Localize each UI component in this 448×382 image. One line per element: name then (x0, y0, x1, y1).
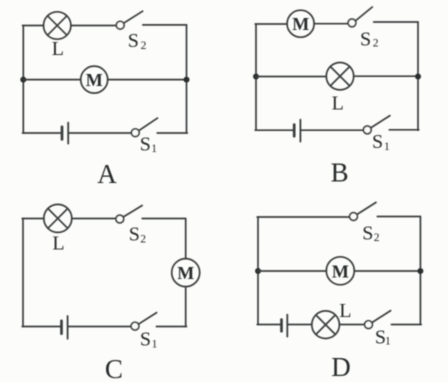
label S2 (circuit C) (129, 224, 147, 246)
wire D bottom segment (lamp to switch S1) (340, 324, 365, 326)
label S1 (circuit D) (375, 327, 391, 349)
wire B top segment (switch to right corner) (374, 21, 418, 23)
wire A middle segment (left to motor) (23, 79, 81, 81)
node dot left (circuit A) (20, 77, 26, 83)
wire A top segment (lamp to switch S2) (71, 25, 116, 27)
wire A bottom segment (battery to switch S1) (69, 132, 132, 134)
svg-text:L: L (332, 93, 344, 115)
svg-text:S: S (140, 329, 151, 351)
label S1 (circuit B) (372, 131, 390, 153)
wire D top segment (corner to switch S2) (257, 216, 349, 218)
svg-text:S: S (128, 30, 139, 52)
wire D right vertical (419, 217, 421, 325)
svg-text:2: 2 (374, 232, 380, 244)
svg-text:S: S (362, 223, 373, 245)
battery (circuit B) (294, 120, 300, 142)
switch S2 (circuit D) (350, 202, 376, 220)
wire B left vertical (255, 24, 257, 130)
svg-text:M: M (177, 263, 194, 283)
wire C bottom segment (switch to right corner) (156, 326, 186, 328)
svg-text:2: 2 (140, 233, 146, 245)
svg-text:L: L (339, 300, 351, 322)
label S2 (circuit A) (128, 30, 147, 52)
motor M (circuit C) (172, 259, 200, 287)
label S1 (circuit A) (140, 134, 157, 156)
wire C top segment (lamp to switch S2) (72, 218, 116, 220)
wire C top segment (switch to right corner) (142, 218, 186, 220)
wire A right vertical (186, 25, 188, 133)
wire D bottom segment (left corner to battery) (257, 324, 280, 326)
wire B bottom segment (battery to switch S1) (301, 129, 363, 131)
svg-text:1: 1 (384, 141, 390, 153)
svg-text:1: 1 (385, 336, 391, 348)
svg-text:B: B (331, 158, 349, 188)
wire A bottom segment (switch to right corner) (157, 132, 187, 134)
svg-text:M: M (86, 70, 103, 90)
wire B middle segment (lamp to right) (354, 75, 418, 77)
motor M (circuit A) (81, 66, 108, 93)
svg-text:S: S (360, 29, 371, 51)
label S2 (circuit D) (362, 223, 380, 245)
lamp L (circuit D) (312, 311, 340, 339)
svg-text:1: 1 (152, 339, 158, 351)
wire C right vertical (top, to motor) (185, 219, 187, 259)
wire D bottom segment (battery to lamp) (288, 324, 312, 326)
wire A top segment (corner to lamp) (23, 25, 44, 27)
wire D left vertical (257, 217, 259, 325)
node dot right (circuit B) (415, 74, 421, 80)
wire D middle segment (motor to right) (354, 270, 420, 272)
switch S2 (circuit B) (348, 7, 372, 27)
lamp L (circuit B) (326, 62, 353, 89)
switch S1 (circuit C) (131, 313, 157, 330)
svg-text:S: S (140, 134, 151, 156)
svg-text:D: D (331, 352, 351, 382)
wire B middle segment (left to lamp) (256, 76, 326, 78)
wire C top segment (corner to lamp) (22, 218, 44, 220)
svg-text:L: L (52, 38, 64, 60)
motor M (circuit D) (326, 257, 354, 285)
wire A middle segment (motor to right) (108, 79, 187, 81)
wire A bottom segment (left corner to battery) (23, 132, 61, 134)
wire D top segment (switch to right corner) (377, 216, 420, 218)
lamp L (circuit A) (44, 12, 71, 39)
motor M (circuit B) (287, 10, 314, 37)
switch S2 (circuit C) (116, 206, 142, 223)
wire C bottom segment (left corner to battery) (22, 326, 60, 328)
switch S1 (circuit A) (131, 118, 157, 137)
svg-text:C: C (105, 354, 123, 382)
svg-text:S: S (129, 224, 140, 246)
label S2 (circuit B) (360, 29, 379, 51)
switch S1 (circuit B) (363, 116, 390, 134)
node dot left (circuit D) (255, 268, 261, 274)
svg-text:2: 2 (373, 38, 379, 50)
label S1 (circuit C) (140, 329, 158, 351)
wire C bottom segment (battery to switch S1) (68, 326, 131, 328)
switch S1 (circuit D) (365, 311, 391, 329)
battery (circuit A) (62, 123, 68, 144)
wire B bottom segment (switch to right corner) (389, 129, 419, 131)
wire B top segment (corner to motor) (255, 23, 287, 25)
svg-text:S: S (372, 131, 383, 153)
wire B right vertical (417, 22, 419, 130)
switch S2 (circuit A) (116, 11, 142, 29)
wire C left vertical (22, 219, 24, 327)
battery (circuit D) (282, 315, 288, 337)
lamp L (circuit C) (44, 204, 72, 232)
svg-text:A: A (97, 159, 117, 189)
svg-text:1: 1 (151, 143, 157, 155)
wire D bottom segment (switch to right corner) (391, 324, 421, 326)
node dot right (circuit D) (417, 268, 423, 274)
node dot left (circuit B) (253, 74, 259, 80)
wire A left vertical (22, 26, 24, 134)
svg-text:2: 2 (141, 40, 147, 52)
battery (circuit C) (62, 316, 68, 339)
svg-text:L: L (52, 233, 64, 255)
wire D middle segment (left to motor) (258, 270, 326, 272)
svg-text:M: M (332, 261, 349, 281)
wire B top segment (motor to switch S2) (314, 23, 348, 25)
wire C right vertical (motor to bottom) (185, 287, 187, 327)
svg-text:M: M (292, 14, 309, 34)
node dot right (circuit A) (184, 77, 190, 83)
wire B bottom segment (left corner to battery) (255, 129, 293, 131)
wire A top segment (switch to right corner) (143, 24, 187, 26)
